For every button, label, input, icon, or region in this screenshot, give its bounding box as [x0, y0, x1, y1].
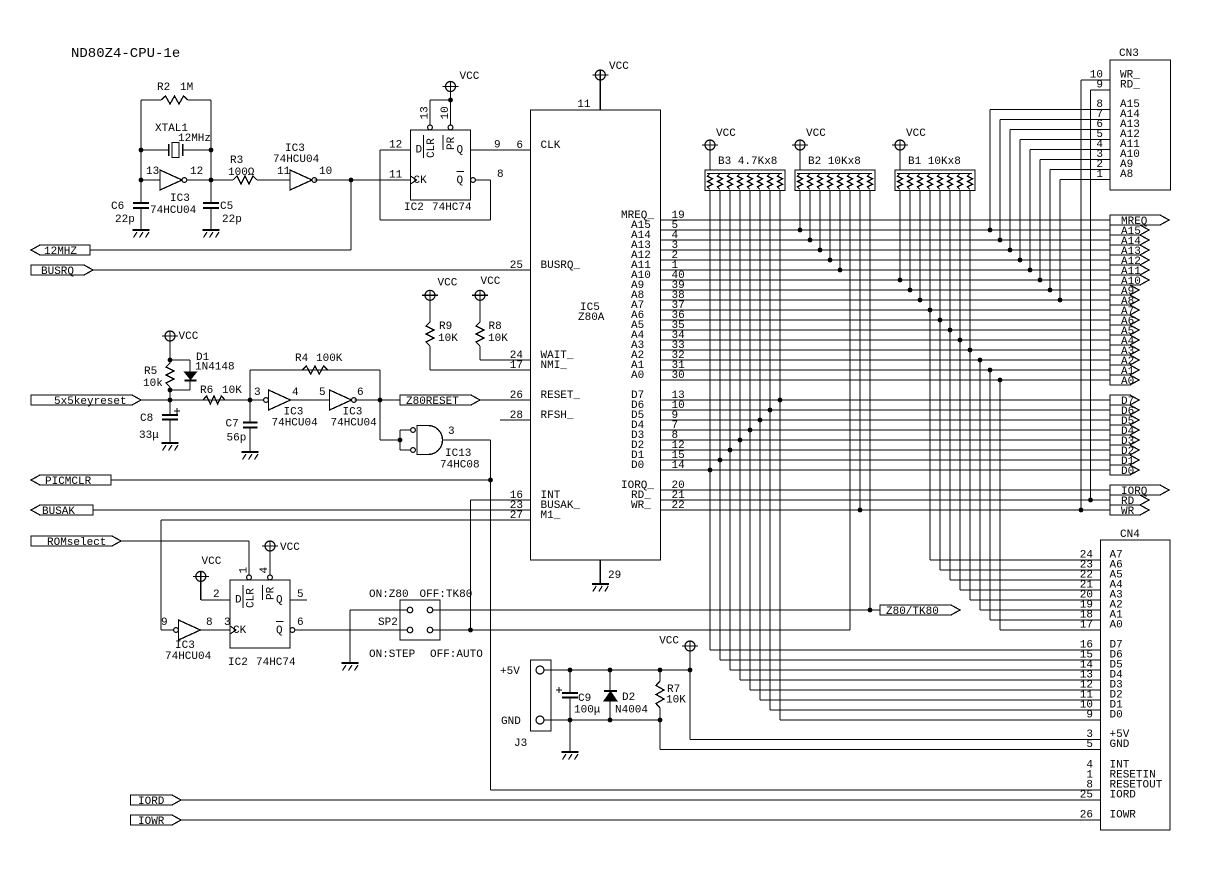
svg-text:14: 14 — [672, 460, 686, 472]
svg-text:Q: Q — [457, 145, 464, 157]
svg-text:100Ω: 100Ω — [228, 167, 255, 179]
svg-text:OFF:AUTO: OFF:AUTO — [430, 649, 483, 661]
svg-text:RD_: RD_ — [1120, 80, 1140, 92]
svg-text:6: 6 — [357, 387, 364, 399]
svg-text:Z80/TK80: Z80/TK80 — [886, 606, 939, 618]
svg-text:Q: Q — [276, 595, 283, 607]
svg-text:GND: GND — [1110, 739, 1130, 751]
svg-text:OFF:TK80: OFF:TK80 — [420, 589, 473, 601]
svg-text:22: 22 — [672, 500, 685, 512]
svg-text:28: 28 — [510, 410, 523, 422]
svg-text:25: 25 — [510, 260, 523, 272]
svg-text:10: 10 — [319, 166, 332, 178]
svg-text:A0: A0 — [1110, 620, 1123, 632]
svg-text:C9: C9 — [578, 693, 591, 705]
svg-text:VCC: VCC — [716, 128, 736, 140]
svg-text:R6: R6 — [200, 385, 213, 397]
svg-text:5: 5 — [319, 387, 326, 399]
svg-text:4: 4 — [259, 567, 271, 574]
svg-text:R2: R2 — [157, 82, 170, 94]
svg-text:74HCU04: 74HCU04 — [331, 418, 378, 430]
svg-text:VCC: VCC — [280, 542, 300, 554]
svg-text:SP2: SP2 — [378, 617, 398, 629]
svg-text:VCC: VCC — [460, 71, 480, 83]
svg-text:22p: 22p — [115, 214, 135, 226]
svg-text:1: 1 — [1096, 169, 1103, 181]
svg-text:ND80Z4-CPU-1e: ND80Z4-CPU-1e — [71, 46, 180, 62]
svg-text:R3: R3 — [230, 155, 243, 167]
svg-text:CLR: CLR — [246, 588, 258, 608]
svg-text:12: 12 — [389, 140, 402, 152]
svg-text:56p: 56p — [227, 433, 247, 445]
svg-text:C6: C6 — [111, 201, 124, 213]
svg-text:ON:STEP: ON:STEP — [369, 649, 416, 661]
svg-text:R5: R5 — [144, 366, 157, 378]
svg-text:D2: D2 — [622, 692, 635, 704]
svg-text:PICMCLR: PICMCLR — [45, 476, 92, 488]
svg-text:R9: R9 — [439, 321, 452, 333]
svg-text:CLK: CLK — [541, 140, 561, 152]
svg-text:Z80A: Z80A — [578, 312, 605, 324]
svg-text:8: 8 — [497, 169, 504, 181]
svg-text:D: D — [416, 145, 423, 157]
svg-text:N4004: N4004 — [615, 705, 648, 717]
svg-text:VCC: VCC — [481, 276, 501, 288]
svg-text:10K: 10K — [438, 333, 458, 345]
svg-text:10K: 10K — [666, 695, 686, 707]
svg-text:B2 10Kx8: B2 10Kx8 — [808, 156, 861, 168]
svg-text:17: 17 — [1080, 620, 1093, 632]
svg-text:1M: 1M — [180, 82, 193, 94]
svg-text:RFSH_: RFSH_ — [541, 410, 574, 422]
svg-text:22p: 22p — [222, 214, 242, 226]
svg-text:VCC: VCC — [609, 61, 629, 73]
svg-text:26: 26 — [510, 390, 523, 402]
svg-text:IC2: IC2 — [404, 202, 424, 214]
svg-text:74HCU04: 74HCU04 — [272, 418, 319, 430]
svg-text:29: 29 — [608, 570, 621, 582]
svg-text:3: 3 — [224, 617, 231, 629]
svg-text:12MHZ: 12MHZ — [44, 246, 77, 258]
svg-text:IORD: IORD — [1110, 790, 1137, 802]
svg-text:3: 3 — [254, 387, 261, 399]
svg-text:IORD: IORD — [138, 796, 165, 808]
svg-text:CN3: CN3 — [1119, 48, 1139, 60]
svg-text:VCC: VCC — [659, 636, 679, 648]
svg-text:8: 8 — [206, 617, 213, 629]
svg-text:NMI_: NMI_ — [541, 360, 568, 372]
svg-text:74HC74: 74HC74 — [256, 657, 296, 669]
svg-text:33μ: 33μ — [139, 430, 159, 442]
svg-text:D0: D0 — [1121, 466, 1134, 478]
svg-text:27: 27 — [510, 510, 523, 522]
svg-text:74HCU04: 74HCU04 — [150, 205, 197, 217]
svg-text:11: 11 — [389, 170, 403, 182]
svg-text:2: 2 — [213, 589, 220, 601]
svg-text:B1 10Kx8: B1 10Kx8 — [908, 156, 961, 168]
svg-text:WR_: WR_ — [631, 500, 651, 512]
svg-text:ROMselect: ROMselect — [47, 537, 106, 549]
svg-text:74HC74: 74HC74 — [432, 202, 472, 214]
svg-text:IOWR: IOWR — [1110, 810, 1137, 822]
svg-text:100μ: 100μ — [574, 705, 601, 717]
svg-text:VCC: VCC — [438, 278, 458, 290]
svg-text:Q: Q — [276, 625, 283, 637]
svg-text:IC3: IC3 — [170, 193, 190, 205]
svg-text:VCC: VCC — [806, 128, 826, 140]
svg-text:Q: Q — [457, 175, 464, 187]
svg-text:11: 11 — [277, 166, 291, 178]
svg-text:+5V: +5V — [500, 666, 520, 678]
svg-text:VCC: VCC — [202, 556, 222, 568]
svg-text:IOWR: IOWR — [138, 816, 165, 828]
svg-text:4: 4 — [292, 387, 299, 399]
svg-text:VCC: VCC — [179, 331, 199, 343]
svg-text:A0: A0 — [631, 370, 644, 382]
svg-text:74HCU04: 74HCU04 — [273, 154, 320, 166]
svg-text:17: 17 — [510, 360, 523, 372]
svg-text:13: 13 — [146, 166, 159, 178]
svg-text:12: 12 — [190, 166, 203, 178]
svg-text:IC2: IC2 — [228, 657, 248, 669]
svg-text:5: 5 — [1086, 739, 1093, 751]
svg-text:5x5keyreset: 5x5keyreset — [54, 396, 127, 408]
svg-text:30: 30 — [672, 370, 685, 382]
svg-text:10K: 10K — [488, 333, 508, 345]
svg-text:B3 4.7Kx8: B3 4.7Kx8 — [718, 156, 777, 168]
svg-text:BUSRQ: BUSRQ — [41, 266, 74, 278]
svg-text:GND: GND — [501, 716, 521, 728]
svg-text:R4: R4 — [295, 353, 309, 365]
svg-text:BUSRQ_: BUSRQ_ — [541, 260, 581, 272]
svg-text:10K: 10K — [222, 385, 242, 397]
svg-text:ON:Z80: ON:Z80 — [369, 589, 409, 601]
svg-text:74HC08: 74HC08 — [440, 460, 480, 472]
svg-text:100K: 100K — [316, 353, 343, 365]
svg-text:10: 10 — [440, 106, 452, 119]
svg-text:IC13: IC13 — [445, 448, 471, 460]
svg-text:R8: R8 — [489, 321, 502, 333]
svg-text:26: 26 — [1080, 810, 1093, 822]
svg-text:1N4148: 1N4148 — [195, 362, 235, 374]
svg-text:A8: A8 — [1120, 169, 1133, 181]
svg-text:C8: C8 — [140, 413, 153, 425]
svg-text:D0: D0 — [1110, 710, 1123, 722]
svg-text:C5: C5 — [220, 201, 233, 213]
svg-text:C7: C7 — [226, 419, 239, 431]
svg-text:9: 9 — [1086, 710, 1093, 722]
svg-text:11: 11 — [577, 99, 591, 111]
svg-text:RESET_: RESET_ — [541, 390, 581, 402]
svg-text:BUSAK: BUSAK — [42, 506, 75, 518]
svg-text:13: 13 — [420, 106, 432, 119]
svg-text:12MHz: 12MHz — [178, 133, 211, 145]
svg-text:J3: J3 — [514, 738, 527, 750]
svg-text:3: 3 — [448, 426, 455, 438]
svg-text:Z80RESET: Z80RESET — [406, 396, 459, 408]
svg-text:CN4: CN4 — [1120, 529, 1140, 541]
svg-text:6: 6 — [297, 617, 304, 629]
svg-text:10k: 10k — [143, 378, 163, 390]
svg-text:CLR: CLR — [426, 138, 438, 158]
svg-text:VCC: VCC — [906, 128, 926, 140]
svg-text:74HCU04: 74HCU04 — [165, 651, 212, 663]
svg-text:9: 9 — [494, 140, 501, 152]
svg-text:25: 25 — [1080, 790, 1093, 802]
svg-text:D0: D0 — [631, 460, 644, 472]
svg-text:5: 5 — [297, 589, 304, 601]
svg-text:M1_: M1_ — [541, 510, 561, 522]
svg-text:WR_: WR_ — [1121, 506, 1141, 518]
svg-text:9: 9 — [161, 617, 168, 629]
svg-text:9: 9 — [1096, 80, 1103, 92]
svg-text:A0: A0 — [1121, 376, 1134, 388]
svg-text:D: D — [235, 595, 242, 607]
